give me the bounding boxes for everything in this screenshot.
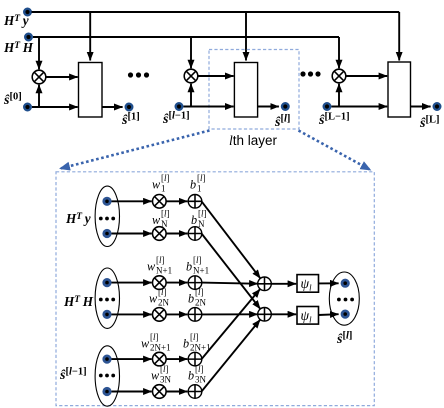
multiplier X1 xyxy=(32,70,46,84)
wire adder row 1 to sum node xyxy=(202,201,261,278)
adder b_N+1 row 3 xyxy=(188,276,202,290)
wire HTH drop to multiplier Xl xyxy=(190,37,192,68)
dotted zoom line left xyxy=(60,131,210,169)
svg-text:1: 1 xyxy=(161,184,166,194)
svg-text:[l]: [l] xyxy=(150,332,159,342)
svg-text:b: b xyxy=(188,292,194,306)
big dashed box of layer detail xyxy=(56,172,374,406)
svg-text:[l]: [l] xyxy=(156,255,165,265)
svg-text:2N+1: 2N+1 xyxy=(150,343,171,353)
svg-text:b: b xyxy=(186,260,192,274)
input ellipse H^T H group xyxy=(95,268,119,328)
svg-text:b: b xyxy=(183,337,189,351)
svg-text:[l]: [l] xyxy=(190,332,199,342)
wire adder row 5 to sum node xyxy=(202,289,261,359)
wire HTH drop to multiplier X1 xyxy=(38,37,40,69)
wire HTH drop to multiplier XL xyxy=(338,37,340,68)
node input dot row 2 xyxy=(104,230,110,236)
svg-text:[l]: [l] xyxy=(161,209,170,219)
svg-text:3N: 3N xyxy=(195,375,207,385)
svg-text:3N: 3N xyxy=(160,375,172,385)
wire adder row 6 to sum node xyxy=(202,320,261,392)
wire multiplier to adder row 1 xyxy=(166,200,187,202)
svg-text:2N: 2N xyxy=(195,298,207,308)
wire s[0] to block W1 xyxy=(32,106,78,108)
node input dot row 1 xyxy=(104,198,110,204)
dots inside ellipse 2 xyxy=(99,298,115,302)
psi box bottom xyxy=(297,307,319,325)
multiplier w_3N row 6 xyxy=(153,385,167,399)
wire sum bottom to psi box bottom xyxy=(271,313,296,315)
dots inside output ellipse xyxy=(337,298,354,302)
svg-text:w: w xyxy=(152,213,161,227)
wire Wl out to node s[l] xyxy=(258,106,279,108)
dotted zoom line right xyxy=(299,131,371,171)
wire dot to multiplier row 6 xyxy=(112,391,152,393)
svg-text:2N: 2N xyxy=(158,298,170,308)
wire multiplier to adder row 6 xyxy=(166,391,187,393)
svg-text:b: b xyxy=(191,213,197,227)
svg-text:[l]: [l] xyxy=(198,209,207,219)
output ellipse s[l] xyxy=(329,272,359,325)
svg-text:N+1: N+1 xyxy=(156,266,172,276)
node input dot row 3 xyxy=(104,279,110,285)
multiplier w_N row 2 xyxy=(153,227,167,241)
wire HTy drop to block Wl xyxy=(245,12,247,61)
svg-text:w: w xyxy=(151,369,160,383)
block WL xyxy=(388,62,411,117)
node output dot top xyxy=(342,280,348,286)
wire HTy drop to block WL xyxy=(398,12,400,61)
multiplier w_N+1 row 3 xyxy=(153,276,167,290)
svg-text:N+1: N+1 xyxy=(193,266,209,276)
input ellipse H^T y group xyxy=(95,186,119,246)
wire HTH bus xyxy=(33,36,339,38)
wire s[L-1] up to multiplier XL xyxy=(338,84,340,107)
wire WL out to node s[L] xyxy=(411,106,431,108)
wire s[l-1] to block Wl xyxy=(184,106,234,108)
node s[l] xyxy=(282,103,289,110)
svg-text:[l]: [l] xyxy=(193,255,202,265)
multiplier XL xyxy=(332,69,346,83)
svg-text:lth layer: lth layer xyxy=(229,133,278,148)
adder b_2N+1 row 5 xyxy=(188,352,202,366)
wire multiplier to adder row 5 xyxy=(166,358,187,360)
adder b_2N row 4 xyxy=(188,308,202,322)
svg-text:w: w xyxy=(152,178,161,192)
wire dot to multiplier row 5 xyxy=(112,358,152,360)
wire dot to multiplier row 4 xyxy=(112,313,152,315)
node output dot bottom xyxy=(342,311,348,317)
wire s[0] up to multiplier X1 xyxy=(38,85,40,107)
sum adder node bottom xyxy=(258,308,272,322)
wire s[l-1] up to multiplier Xl xyxy=(190,84,192,107)
wire XL to block WL xyxy=(346,75,387,77)
svg-text:w: w xyxy=(141,337,150,351)
block W1 xyxy=(79,63,103,118)
wire dot to multiplier row 2 xyxy=(112,233,152,235)
adder b_N row 2 xyxy=(188,227,202,241)
wire psi top to output dot top xyxy=(319,282,339,284)
wire s[L-1] to block WL xyxy=(332,106,388,108)
wire dot to multiplier row 3 xyxy=(112,282,152,284)
multiplier w_2N+1 row 5 xyxy=(153,352,167,366)
wire adder row 2 to sum node xyxy=(202,234,261,309)
svg-text:w: w xyxy=(147,260,156,274)
svg-text:[l]: [l] xyxy=(160,364,169,374)
wire adder row 4 to sum node xyxy=(202,313,258,315)
svg-text:[l]: [l] xyxy=(161,173,170,183)
svg-text:[l]: [l] xyxy=(195,364,204,374)
sum adder node top xyxy=(258,277,272,291)
node input dot row 4 xyxy=(104,311,110,317)
svg-text:[l]: [l] xyxy=(195,287,204,297)
svg-text:b: b xyxy=(188,369,194,383)
dots inside ellipse 3 xyxy=(99,374,115,378)
wire HTy drop to block W1 xyxy=(89,12,91,61)
block Wl xyxy=(234,63,257,118)
svg-text:b: b xyxy=(190,178,196,192)
wire psi bottom to output dot bottom xyxy=(319,313,339,316)
wire W1 out to node s[1] xyxy=(102,106,123,108)
node HTy input xyxy=(24,9,31,16)
wire multiplier to adder row 4 xyxy=(166,313,187,315)
multiplier w_2N row 4 xyxy=(153,308,167,322)
wire sum top to psi box top xyxy=(271,283,296,285)
psi box top xyxy=(297,275,319,293)
wire HTy bus xyxy=(32,11,400,13)
wire multiplier to adder row 3 xyxy=(166,282,187,284)
wire X1 to block W1 xyxy=(46,76,78,78)
input ellipse s[l-1] group xyxy=(95,346,119,406)
dashed box around lth layer xyxy=(209,50,299,130)
node s[0] xyxy=(24,104,31,111)
svg-text:N: N xyxy=(198,219,205,229)
node s[1] xyxy=(126,104,133,111)
node s[L] xyxy=(434,103,441,110)
multiplier w_1 row 1 xyxy=(153,195,167,209)
wire Xl to block Wl xyxy=(198,75,234,77)
svg-text:w: w xyxy=(149,292,158,306)
svg-text:[l]: [l] xyxy=(197,173,206,183)
node input dot row 5 xyxy=(104,356,110,362)
svg-text:[l]: [l] xyxy=(158,287,167,297)
node s[l-1] xyxy=(176,103,183,110)
wire dot to multiplier row 1 xyxy=(112,200,152,202)
ellipsis dots between layer l and layer L xyxy=(300,71,320,76)
node s[L-1] xyxy=(324,103,331,110)
svg-text:N: N xyxy=(161,219,168,229)
node input dot row 6 xyxy=(104,388,110,394)
dots inside ellipse 1 xyxy=(99,217,115,221)
svg-text:1: 1 xyxy=(197,184,202,194)
ellipsis dots between layer 1 and layer l xyxy=(128,72,149,77)
wire multiplier to adder row 2 xyxy=(166,233,187,235)
adder b_1 row 1 xyxy=(188,195,202,209)
adder b_3N row 6 xyxy=(188,385,202,399)
node HTH input xyxy=(25,34,32,41)
wire adder row 3 to sum node xyxy=(202,283,258,284)
multiplier Xl xyxy=(184,69,198,83)
